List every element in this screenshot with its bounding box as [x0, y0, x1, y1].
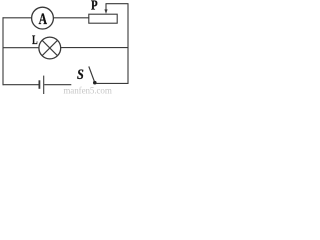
- wire right rail: [127, 4, 129, 84]
- wire left rail: [2, 17, 4, 85]
- wire top-left horizontal: [3, 17, 32, 19]
- wire middle-left horizontal: [3, 47, 40, 49]
- battery negative plate (short thick): [38, 80, 40, 89]
- slider arrow of rheostat: [105, 4, 107, 11]
- svg-text:L: L: [32, 33, 38, 47]
- battery positive plate (long thin): [43, 76, 45, 94]
- wire ammeter to rheostat: [53, 17, 89, 19]
- lamp L (circle with X): [39, 37, 61, 59]
- wire bottom-left to battery: [3, 84, 39, 86]
- svg-text:S: S: [77, 67, 84, 83]
- switch contact dot: [93, 81, 97, 85]
- ammeter A (circle): [32, 7, 54, 29]
- wire switch to bottom-right corner: [96, 82, 129, 84]
- wire arrow to right rail: [106, 3, 129, 5]
- svg-text:manfen5.com: manfen5.com: [63, 86, 111, 96]
- svg-text:P: P: [91, 0, 98, 13]
- wire battery to switch: [44, 84, 71, 86]
- rheostat P (resistor box): [89, 14, 117, 23]
- switch S blade: [89, 66, 95, 81]
- wire lamp to right rail: [61, 47, 128, 49]
- svg-text:A: A: [39, 10, 48, 28]
